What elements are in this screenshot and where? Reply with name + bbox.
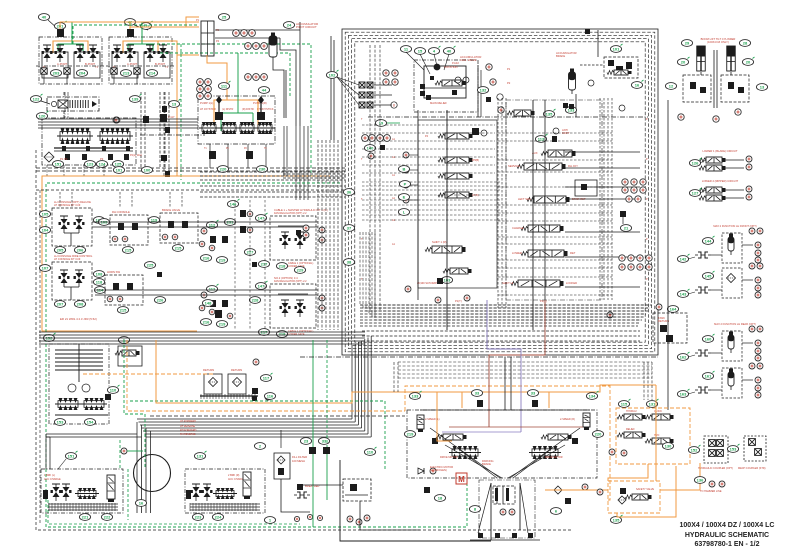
gauge cluster row 3 xyxy=(245,74,252,81)
label oval 19 xyxy=(375,120,386,127)
svg-text:21: 21 xyxy=(624,226,629,231)
cylinder left xyxy=(697,46,706,71)
svg-text:120: 120 xyxy=(39,114,46,119)
spool valve SHIFT HI xyxy=(511,280,564,287)
svg-text:132: 132 xyxy=(480,88,487,93)
svg-text:LEFT SWL: LEFT SWL xyxy=(518,197,532,201)
svg-text:P2: P2 xyxy=(216,29,220,32)
wire: central block nested dashed borders xyxy=(345,32,655,352)
wire: relief drops xyxy=(63,92,65,97)
svg-text:T: T xyxy=(361,238,363,241)
svg-text:151: 151 xyxy=(55,162,62,167)
svg-text:219: 219 xyxy=(407,432,414,437)
manifold M1 hatch xyxy=(48,503,50,511)
wire: bundle B horizontal xyxy=(137,418,352,420)
svg-text:226: 226 xyxy=(157,298,164,303)
svg-text:T: T xyxy=(361,158,363,161)
wire: inner vertical bundle left of stack xyxy=(497,98,499,308)
travel bottom terminals xyxy=(478,533,483,538)
ls shuttle assembly xyxy=(343,479,371,501)
svg-text:140: 140 xyxy=(367,146,374,151)
pilot gauge sub-cluster xyxy=(201,292,207,298)
gauge grid mid-left xyxy=(197,79,204,86)
label ovals xyxy=(255,213,267,221)
svg-text:28: 28 xyxy=(743,41,748,46)
svg-text:RH(B): RH(B) xyxy=(472,159,479,162)
wire: central block outer solid border xyxy=(342,29,658,355)
wire: bank drain lines xyxy=(43,74,45,84)
svg-text:100 MESH: 100 MESH xyxy=(292,459,305,463)
svg-text:15: 15 xyxy=(418,49,423,54)
svg-text:208: 208 xyxy=(77,302,84,307)
svg-text:33: 33 xyxy=(322,439,327,444)
svg-text:RH JOYSTICK: RH JOYSTICK xyxy=(257,108,274,111)
svg-text:DRIVE MOTOR: DRIVE MOTOR xyxy=(440,456,458,459)
small box mid right xyxy=(575,180,597,196)
cylinder bottom circles xyxy=(678,114,684,120)
svg-text:160: 160 xyxy=(705,337,712,342)
wire: green dashed to manifold xyxy=(73,25,199,44)
svg-text:13: 13 xyxy=(760,85,765,90)
distributor pump group 2 xyxy=(219,122,239,134)
svg-text:215: 215 xyxy=(120,308,127,313)
lower block valve xyxy=(472,128,479,135)
wire: right column verticals xyxy=(667,100,669,410)
right pump gears xyxy=(529,446,561,459)
svg-text:A1: A1 xyxy=(392,243,396,246)
wire: red drop line xyxy=(489,300,545,427)
label oval 132 xyxy=(477,87,488,94)
svg-text:(100X4 DZ ONLY): (100X4 DZ ONLY) xyxy=(707,40,729,44)
svg-text:T2: T2 xyxy=(264,148,267,150)
joystick distributor frame xyxy=(198,96,275,144)
label oval 111 xyxy=(218,81,230,89)
label oval 40 xyxy=(38,14,49,21)
svg-text:P: P xyxy=(646,198,648,201)
fan regulator cluster CABLE 1 + MASTER HYDRAULIC KIT 1 (N.) xyxy=(270,216,316,260)
svg-text:219: 219 xyxy=(219,322,226,327)
component 117 block xyxy=(143,116,149,123)
svg-text:BRAKE: BRAKE xyxy=(482,462,491,466)
wire: pump area vertical dashes xyxy=(64,92,66,118)
svg-text:152: 152 xyxy=(691,448,698,453)
wire: manifold drain xyxy=(207,55,227,100)
svg-text:SAFETY VALVE: SAFETY VALVE xyxy=(636,488,654,491)
svg-text:136: 136 xyxy=(697,478,704,483)
mid column components xyxy=(162,106,167,112)
svg-text:229: 229 xyxy=(297,268,304,273)
svg-text:204: 204 xyxy=(79,71,86,76)
svg-text:125: 125 xyxy=(115,162,122,167)
spool valve CHARGE xyxy=(521,225,564,232)
svg-text:P: P xyxy=(646,158,648,161)
svg-text:133: 133 xyxy=(412,394,419,399)
svg-text:127: 127 xyxy=(692,191,699,196)
wire: bank lower dash-dot xyxy=(36,65,105,67)
svg-text:217: 217 xyxy=(261,262,268,267)
svg-text:211: 211 xyxy=(143,24,150,29)
wire: accumulator drop extension xyxy=(283,126,285,176)
bank outlet fittings xyxy=(41,68,47,74)
wire: manifold drop dashes xyxy=(46,165,48,176)
svg-text:123: 123 xyxy=(87,162,94,167)
svg-text:E: E xyxy=(403,195,406,200)
label oval 42 xyxy=(124,19,135,26)
pilot shutoff valve xyxy=(57,29,64,37)
svg-text:213: 213 xyxy=(123,71,130,76)
svg-text:(HYDROGEN): (HYDROGEN) xyxy=(430,468,447,472)
label oval 211 xyxy=(140,21,152,29)
swing gauge xyxy=(121,448,127,454)
svg-text:P3: P3 xyxy=(100,157,104,161)
left travel relief valve xyxy=(417,415,424,432)
svg-text:215: 215 xyxy=(125,248,132,253)
wire: orange dashed trunk lower xyxy=(127,340,405,411)
svg-text:B-PORT: B-PORT xyxy=(155,62,165,66)
svg-text:ROTATION: ROTATION xyxy=(444,65,458,69)
svg-text:115: 115 xyxy=(621,402,628,407)
svg-text:1 BRK (L): 1 BRK (L) xyxy=(44,474,55,477)
cylinder right xyxy=(727,46,736,71)
svg-text:T: T xyxy=(361,278,363,281)
pilot cluster RH CONSOLE xyxy=(110,215,148,245)
svg-text:LOWER 1 (BLADE) CIRCUIT: LOWER 1 (BLADE) CIRCUIT xyxy=(702,149,737,153)
wire: pilot region black dashed border xyxy=(36,190,572,530)
solenoid pair 23/33 xyxy=(300,438,311,445)
svg-text:116: 116 xyxy=(267,394,274,399)
wire: block bottom bundle rows xyxy=(360,304,652,306)
svg-text:110: 110 xyxy=(110,388,117,393)
wire: green dashed trunk lower xyxy=(124,340,145,414)
wire: green drop to pilot border xyxy=(180,44,182,180)
svg-text:33: 33 xyxy=(475,391,480,396)
svg-text:2 BRK (R): 2 BRK (R) xyxy=(228,474,240,477)
svg-text:18: 18 xyxy=(438,496,443,501)
regulator internal circles xyxy=(455,77,461,83)
svg-text:B-PORT: B-PORT xyxy=(85,62,95,66)
travel assembly frame xyxy=(407,410,597,478)
label oval 140 xyxy=(364,145,375,152)
svg-text:CHARGE: CHARGE xyxy=(512,226,524,230)
svg-text:T1: T1 xyxy=(204,148,207,150)
svg-text:T: T xyxy=(361,198,363,201)
anti-drift valve xyxy=(553,128,559,134)
label oval 13 xyxy=(168,99,180,107)
gauge row block left xyxy=(362,135,369,142)
left stack spool rows xyxy=(438,133,473,139)
pilot reducing valves xyxy=(112,45,123,62)
svg-text:A1: A1 xyxy=(392,219,396,222)
wire: mid column verticals xyxy=(163,92,165,176)
svg-text:143: 143 xyxy=(680,292,687,297)
svg-text:P: P xyxy=(646,278,648,281)
svg-text:230: 230 xyxy=(259,167,266,172)
wire: travel top rail xyxy=(420,409,590,411)
svg-text:RH JOY: RH JOY xyxy=(568,164,578,168)
wire: violet drop line xyxy=(487,300,521,432)
svg-text:12: 12 xyxy=(669,84,674,89)
motor box M xyxy=(456,473,467,484)
svg-text:134: 134 xyxy=(589,394,596,399)
svg-text:HYD: HYD xyxy=(654,434,659,437)
svg-text:16: 16 xyxy=(139,501,144,506)
svg-text:104: 104 xyxy=(42,228,49,233)
svg-text:SHIFT HI: SHIFT HI xyxy=(502,281,513,285)
gear reducer centre xyxy=(479,480,535,538)
svg-text:P2(L) 1111: P2(L) 1111 xyxy=(130,154,142,157)
svg-text:26,990 SATURATED: 26,990 SATURATED xyxy=(417,282,440,285)
svg-text:146: 146 xyxy=(230,202,237,207)
wire: orange travel supply branches xyxy=(437,392,452,441)
wire: orange safety bottom xyxy=(617,466,676,517)
label oval 24 xyxy=(283,22,294,29)
wire: pilot bus bundle xyxy=(200,171,345,173)
svg-text:153: 153 xyxy=(730,447,737,452)
cooler fan circles xyxy=(68,384,76,392)
solenoid 33 right xyxy=(527,390,538,397)
svg-text:8: 8 xyxy=(393,104,395,108)
svg-text:MAX 2 FUNCTION LH FRONT (OPT): MAX 2 FUNCTION LH FRONT (OPT) xyxy=(713,224,756,228)
wire: pilot region long verticals xyxy=(234,200,236,330)
label oval 201 xyxy=(54,21,66,29)
label ovals xyxy=(39,265,50,272)
svg-text:P.ADJ: P.ADJ xyxy=(452,62,460,65)
svg-text:216: 216 xyxy=(203,256,210,261)
spool valve LOWER xyxy=(521,250,568,257)
right travel relief valve xyxy=(583,413,590,430)
svg-text:148: 148 xyxy=(205,301,212,306)
wire: manifold top bus xyxy=(38,118,198,120)
svg-text:112: 112 xyxy=(209,287,216,292)
svg-text:164: 164 xyxy=(670,307,677,312)
svg-text:122: 122 xyxy=(33,97,40,102)
svg-text:101: 101 xyxy=(613,47,620,52)
svg-text:RETURN: RETURN xyxy=(231,368,242,372)
svg-text:207: 207 xyxy=(57,302,64,307)
pilot extra ovals xyxy=(144,262,155,269)
pilot cluster HORN SW xyxy=(105,275,143,305)
svg-text:P: P xyxy=(646,238,648,241)
accumulator in block xyxy=(569,69,576,95)
svg-text:126: 126 xyxy=(692,161,699,166)
wire: travel diagonals extra xyxy=(460,450,497,478)
wire: green feed inside distributor xyxy=(237,53,239,113)
pump A gears 1 xyxy=(57,128,93,144)
svg-text:220: 220 xyxy=(595,432,602,437)
wire: green pilot return U xyxy=(58,44,83,51)
wire: orange bottom-right routing xyxy=(655,385,657,481)
bank outlet fittings xyxy=(111,68,117,74)
svg-text:163: 163 xyxy=(680,392,687,397)
label oval 136 xyxy=(694,477,705,484)
svg-text:218: 218 xyxy=(279,264,286,269)
svg-text:2-SPEED (R): 2-SPEED (R) xyxy=(560,418,575,421)
wire: cluster risers xyxy=(59,192,61,208)
svg-text:LH(B): LH(B) xyxy=(472,194,479,197)
label oval 21 xyxy=(620,225,631,232)
svg-text:CHG. VALVE: CHG. VALVE xyxy=(460,58,477,62)
wire: bank lower dash-dot xyxy=(106,65,175,67)
wire: cylinder center lines xyxy=(713,50,715,108)
label ovals pump control xyxy=(400,46,411,53)
svg-text:LOCKED: LOCKED xyxy=(566,281,577,285)
svg-text:224: 224 xyxy=(215,515,222,520)
left border ovals xyxy=(343,189,354,196)
pump feet xyxy=(62,146,66,151)
twin quick couplers xyxy=(704,436,728,463)
svg-text:222: 222 xyxy=(104,515,111,520)
svg-text:RH REVERSE: RH REVERSE xyxy=(180,433,196,436)
wire: inner corner fan left xyxy=(360,232,650,305)
sub-plate frames xyxy=(112,52,138,78)
aux control cluster xyxy=(616,408,690,464)
pilot select valve xyxy=(443,268,472,274)
svg-text:38: 38 xyxy=(347,260,352,265)
solenoid valve row A xyxy=(507,110,535,116)
gauge pairs xyxy=(383,70,389,76)
svg-text:HORN SW: HORN SW xyxy=(107,270,120,274)
svg-text:110: 110 xyxy=(367,450,374,455)
wire: orange solid trunk lower xyxy=(156,340,656,403)
left stack gauge column xyxy=(403,152,409,158)
pump group A frame xyxy=(42,118,136,165)
svg-text:FAN REGULATOR (OPT) 2.2: FAN REGULATOR (OPT) 2.2 xyxy=(274,212,307,215)
svg-text:227: 227 xyxy=(247,250,254,255)
svg-text:147: 147 xyxy=(258,284,265,289)
wire: block-to-travel bundle rows xyxy=(398,361,652,363)
svg-text:TO HAMMER LINE: TO HAMMER LINE xyxy=(700,490,722,493)
main relief valve xyxy=(47,97,99,111)
wire: left border inner dashed xyxy=(39,190,41,524)
svg-text:105: 105 xyxy=(42,212,49,217)
svg-text:131: 131 xyxy=(197,454,204,459)
svg-text:216: 216 xyxy=(203,320,210,325)
wire: stack solid outputs xyxy=(565,151,640,153)
pump B drain fittings xyxy=(209,151,216,159)
svg-text:RH FORWARD: RH FORWARD xyxy=(180,429,197,432)
pump outlet fittings xyxy=(65,154,70,160)
svg-text:LOWER 2 (RIPPER) CIRCUIT: LOWER 2 (RIPPER) CIRCUIT xyxy=(702,179,739,183)
svg-text:RET: RET xyxy=(570,251,576,255)
distributor pump group 3 xyxy=(237,122,257,134)
svg-text:107: 107 xyxy=(42,266,49,271)
wire: orange dashed cooler link xyxy=(83,373,213,375)
pilot region mid valves xyxy=(215,310,222,318)
svg-text:203: 203 xyxy=(53,71,60,76)
svg-text:HYDRAULIC SCHEMATIC: HYDRAULIC SCHEMATIC xyxy=(685,532,769,539)
svg-text:220: 220 xyxy=(220,167,227,172)
svg-text:A1: A1 xyxy=(392,138,396,141)
svg-text:MECH COUPLER (STD): MECH COUPLER (STD) xyxy=(738,467,766,470)
wire: dash-dot mid y117 xyxy=(368,116,648,118)
wire: manifold outputs xyxy=(215,29,300,31)
label oval xyxy=(98,219,109,226)
left stack inner box xyxy=(418,120,497,288)
svg-text:135: 135 xyxy=(546,112,553,117)
gauges lower-left of stack xyxy=(405,286,411,292)
wire: black dashed trunk lower xyxy=(150,415,405,417)
distributor pump group 4 xyxy=(255,122,275,134)
svg-text:P4: P4 xyxy=(425,135,429,138)
wire: filter bottom rail xyxy=(200,395,258,397)
gauge cluster row 2 xyxy=(245,43,252,50)
right wing ovals xyxy=(586,391,598,399)
spool valve AUX xyxy=(541,150,576,157)
pilot reducing valves xyxy=(42,45,53,62)
wire: central block inner verticals xyxy=(369,45,371,310)
svg-text:2-SPEED (L): 2-SPEED (L) xyxy=(425,418,440,421)
wire: 101 connections xyxy=(580,64,604,66)
brake charge assembly 101 xyxy=(610,44,622,52)
wire: tank return lines xyxy=(280,430,282,448)
check valve to tank xyxy=(418,468,424,474)
svg-text:124: 124 xyxy=(99,162,106,167)
label oval 230 xyxy=(256,166,267,173)
shift valve 1 xyxy=(425,246,466,253)
border gauge 150 xyxy=(607,312,613,318)
wire: travel centre feeds xyxy=(504,357,506,410)
svg-text:P3(T): P3(T) xyxy=(540,299,547,303)
pilot valve bank at x=39 xyxy=(39,37,102,84)
wire: bundle right drops xyxy=(643,362,645,400)
svg-text:108: 108 xyxy=(96,272,103,277)
svg-text:37: 37 xyxy=(347,226,352,231)
pilot cluster LH CONSOLE (OPT) DELUXE xyxy=(52,208,92,246)
svg-text:19: 19 xyxy=(379,121,384,126)
svg-text:145: 145 xyxy=(705,274,712,279)
svg-text:A1: A1 xyxy=(392,156,396,159)
pilot cluster BRAKE VALVE xyxy=(160,213,198,243)
svg-text:63798780-1 EN - 1/2: 63798780-1 EN - 1/2 xyxy=(695,541,760,548)
wire: orange U inside distributor xyxy=(214,100,258,131)
solenoid block right edge xyxy=(620,211,626,217)
sub-plate frames xyxy=(42,52,68,78)
tank couplers xyxy=(359,82,365,88)
wire: tank drop pair x331 xyxy=(330,36,332,140)
wire: mid-block dashed bus rows xyxy=(362,181,500,183)
label ovals cylinders xyxy=(681,40,692,47)
gauge cluster right in block xyxy=(622,179,628,185)
label oval 133 xyxy=(565,107,576,114)
svg-text:RELIEF: RELIEF xyxy=(626,428,635,431)
svg-text:147: 147 xyxy=(258,216,265,221)
svg-text:223: 223 xyxy=(195,515,202,520)
label oval 204 xyxy=(76,70,87,77)
svg-text:P2: P2 xyxy=(507,81,511,85)
svg-text:16: 16 xyxy=(635,83,640,88)
svg-text:FILL FILTER: FILL FILTER xyxy=(292,455,307,459)
svg-text:40: 40 xyxy=(447,49,452,54)
svg-text:215: 215 xyxy=(175,246,182,251)
left wing reducer xyxy=(432,438,438,444)
wire: dash-dot line y135 xyxy=(140,134,205,136)
svg-text:P1: P1 xyxy=(507,67,511,71)
port letter ovals xyxy=(398,166,409,173)
solenoid 33 left xyxy=(471,390,482,397)
svg-text:T1: T1 xyxy=(95,66,99,69)
wire: travel violet pilot rail xyxy=(442,431,521,433)
wire: green dashed long 2 xyxy=(142,44,311,176)
oil cooler assembly xyxy=(49,344,109,424)
label ovals pump A xyxy=(52,161,63,168)
wire: pilot region green dashed border xyxy=(46,183,467,527)
svg-text:101: 101 xyxy=(116,168,123,173)
wire: distributor legs xyxy=(209,144,211,168)
brake manifold M2 xyxy=(185,469,265,513)
wire: travel red pilot rail xyxy=(449,426,583,428)
svg-text:M: M xyxy=(458,475,465,484)
svg-text:P1 P2: P1 P2 xyxy=(60,157,68,161)
